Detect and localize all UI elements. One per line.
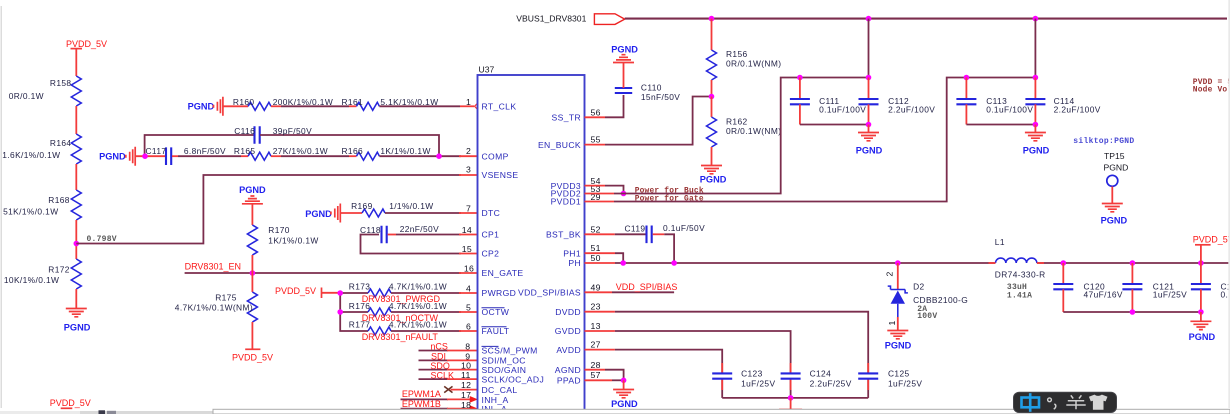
svg-text:0R/0.1W: 0R/0.1W <box>9 91 44 101</box>
svg-text:R156: R156 <box>726 49 748 59</box>
svg-text:COMP: COMP <box>482 152 509 162</box>
wire PVDD_5V to R158 <box>75 49 77 76</box>
svg-text:2: 2 <box>466 146 471 156</box>
svg-text:0R/0.1W(NM): 0R/0.1W(NM) <box>726 59 781 69</box>
pin name INL_A <box>482 404 508 414</box>
junction rail/C121 <box>1130 260 1136 266</box>
pin number 13 <box>591 321 601 331</box>
annotation PVDD node voltage (clipped) <box>1193 78 1230 95</box>
svg-text:FAULT: FAULT <box>482 326 510 336</box>
svg-text:PWRGD: PWRGD <box>482 288 517 298</box>
svg-text:16: 16 <box>464 264 474 274</box>
wire R173 to pin 4 <box>391 292 478 294</box>
svg-text:51K/1%/0.1W: 51K/1%/0.1W <box>3 207 58 217</box>
pin number 54 <box>591 176 601 186</box>
wire PGND to R160 <box>223 105 248 107</box>
svg-text:1: 1 <box>466 97 471 107</box>
wire C120-C122 bottom rail <box>1063 311 1201 313</box>
svg-text:50: 50 <box>591 253 601 263</box>
resistor R158 <box>9 76 82 106</box>
svg-text:CDBB2100-G: CDBB2100-G <box>913 295 968 305</box>
pin name PWRGD <box>482 288 517 298</box>
power port PVDD_5V (top left) <box>66 39 107 49</box>
svg-text:DC_CAL: DC_CAL <box>482 385 518 395</box>
wire VSENSE net (tap to pin 3) <box>76 175 461 244</box>
svg-text:PGND: PGND <box>239 185 266 195</box>
wire C112 drop <box>868 19 870 78</box>
wire SS_TR to C110 <box>585 95 624 117</box>
svg-text:VDD_SPI/BIAS: VDD_SPI/BIAS <box>518 288 581 298</box>
pin name SS_TR <box>552 113 581 123</box>
svg-text:27: 27 <box>591 340 601 350</box>
wire VBUS trunk <box>625 18 1227 20</box>
pin name PH1 <box>563 248 581 258</box>
svg-text:R160: R160 <box>233 97 255 107</box>
svg-text:VSENSE: VSENSE <box>482 170 519 180</box>
net label VDD_SPI/BIAS <box>585 282 678 293</box>
capacitor C117 <box>146 146 226 165</box>
IME punctuation icon <box>1048 398 1052 402</box>
pin number 55 <box>591 135 601 145</box>
svg-text:PGND: PGND <box>611 399 638 409</box>
net label EPWM1B / wire to pin 18 <box>401 399 478 412</box>
pin name GVDD <box>555 326 581 336</box>
pin number 16 <box>464 264 474 274</box>
pin name SDO/GAIN <box>482 365 527 375</box>
net label SCLK / wire to pin 11 <box>419 370 478 380</box>
resistor R170 <box>247 225 318 255</box>
wire PGND to R170 <box>251 204 253 225</box>
wire EN_BUCK to divider <box>585 97 711 145</box>
wire pull-up bus <box>340 293 368 331</box>
capacitor C114 <box>1025 78 1100 125</box>
svg-text:2.2uF/25V: 2.2uF/25V <box>810 378 852 388</box>
resistor R176 <box>349 301 447 316</box>
ground PGND (row COMP, sideways) <box>99 147 135 166</box>
wire GVDD to C124 <box>585 331 791 398</box>
svg-text:2: 2 <box>885 271 895 276</box>
capacitor C116 (feedback loop) <box>145 126 439 154</box>
wire R176 to pin 5 <box>391 311 478 313</box>
net label DRV8301_nOCTW <box>362 313 439 323</box>
junction bottom rail/C124 <box>788 395 794 401</box>
junction rail/C114 <box>1033 75 1039 81</box>
junction rail/C111 <box>797 75 803 81</box>
wire C110 to ground <box>623 63 625 88</box>
svg-text:18: 18 <box>461 400 471 410</box>
pin name RT_CLK <box>482 102 517 112</box>
svg-text:SCLK/OC_ADJ: SCLK/OC_ADJ <box>482 374 545 384</box>
svg-text:12: 12 <box>461 380 471 390</box>
pin name INH_A <box>482 395 509 405</box>
svg-text:55: 55 <box>591 135 601 145</box>
wire C123-C125 bottom rail <box>722 397 868 399</box>
wire R161 to pin 1 <box>379 105 474 107</box>
svg-text:C110: C110 <box>641 83 662 93</box>
pin name VDD_SPI/BIAS <box>518 288 581 298</box>
resistor R162 <box>707 97 782 166</box>
svg-text:R166: R166 <box>342 146 364 156</box>
junction C119/PH <box>671 260 677 266</box>
power port PVDD_5V (top right) <box>1193 235 1230 264</box>
pin name FAULT (active low) <box>482 326 510 336</box>
wire R168-R172 <box>75 220 77 259</box>
svg-text:L1: L1 <box>995 237 1005 247</box>
svg-text:Power for Gate: Power for Gate <box>635 194 704 203</box>
svg-text:R168: R168 <box>48 195 70 205</box>
svg-text:11: 11 <box>461 370 471 380</box>
svg-text:23: 23 <box>591 302 601 312</box>
svg-text:DRV8301_EN: DRV8301_EN <box>185 262 241 272</box>
svg-text:1/1%/0.1W: 1/1%/0.1W <box>389 201 433 211</box>
resistor R175 <box>175 292 258 322</box>
svg-text:CP2: CP2 <box>482 249 500 259</box>
ground PGND (row DTC, sideways) <box>305 204 340 223</box>
svg-text:4.7K/1%/0.1W: 4.7K/1%/0.1W <box>389 282 447 292</box>
capacitor C110 <box>615 83 680 103</box>
svg-text:1K/1%/0.1W: 1K/1%/0.1W <box>268 236 318 246</box>
junction trunk/C114 drop <box>1033 16 1039 22</box>
svg-text:GVDD: GVDD <box>555 326 581 336</box>
svg-text:1uF/25V: 1uF/25V <box>888 378 922 388</box>
scrollbar (right edge) <box>1228 0 1230 408</box>
svg-text:15: 15 <box>462 244 472 254</box>
svg-text:6.8nF/50V: 6.8nF/50V <box>184 146 226 156</box>
svg-text:PGND: PGND <box>99 152 126 162</box>
junction bottom rail/C114 <box>1033 122 1039 128</box>
capacitor C111 <box>790 78 866 125</box>
svg-text:C116: C116 <box>234 126 255 136</box>
svg-text:0R/0.1W(NM): 0R/0.1W(NM) <box>726 126 781 136</box>
net label SDO / wire to pin 10 <box>419 361 478 371</box>
pin 1 clock diamond <box>475 104 481 110</box>
pin name EN_GATE <box>482 268 524 278</box>
svg-text:BST_BK: BST_BK <box>546 230 581 240</box>
svg-text:1.41A: 1.41A <box>1007 292 1032 301</box>
pin number 15 <box>462 244 472 254</box>
off-page connector VBUS1_DRV8301 <box>516 14 624 25</box>
scrollbar strip (bottom) <box>0 409 1230 414</box>
ground PGND (row RT_CLK, sideways) <box>188 97 223 116</box>
wire R165-R166 <box>271 155 356 157</box>
pin stub CP2 <box>459 253 478 255</box>
svg-text:4.7K/1%/0.1W: 4.7K/1%/0.1W <box>389 301 447 311</box>
pin name PVDD2 <box>551 189 581 199</box>
node 0.798V annotation <box>87 235 117 244</box>
junction rail/C122 <box>1198 260 1204 266</box>
svg-text:D2: D2 <box>913 281 924 291</box>
wire C111/C112 bottom rail <box>800 124 869 126</box>
net label DRV8301_EN <box>185 262 241 272</box>
junction bottom rail/C121 <box>1130 309 1136 315</box>
svg-text:VDD_SPI/BIAS: VDD_SPI/BIAS <box>616 282 678 292</box>
pin name SCLK/OC_ADJ <box>482 374 545 384</box>
wire PH1 elbow <box>585 253 624 263</box>
svg-text:AVDD: AVDD <box>556 345 581 355</box>
svg-text:7: 7 <box>466 204 471 214</box>
wire R160-R161 <box>271 105 356 107</box>
wire EN_GATE row <box>185 272 478 274</box>
wire R175 to PVDD_5V <box>251 322 253 349</box>
svg-text:R172: R172 <box>48 265 70 275</box>
power port PVDD_5V (pull-up feed) <box>275 286 339 298</box>
svg-text:5: 5 <box>466 303 471 313</box>
svg-text:15nF/50V: 15nF/50V <box>641 92 680 102</box>
resistor R168 <box>3 190 81 220</box>
inductor L1 <box>995 237 1046 301</box>
svg-text:PGND: PGND <box>1104 163 1129 173</box>
svg-text:4.7K/1%/0.1W: 4.7K/1%/0.1W <box>389 320 447 330</box>
svg-text:0.1uF/100V: 0.1uF/100V <box>819 105 866 115</box>
svg-text:PVDD_5V: PVDD_5V <box>66 39 107 49</box>
capacitor C119 <box>625 223 706 243</box>
svg-text:1.6K/1%/0.1W: 1.6K/1%/0.1W <box>2 150 60 160</box>
svg-text:SCS/M_PWM: SCS/M_PWM <box>482 346 538 356</box>
wire PVDD1 Power for Gate <box>585 78 1036 202</box>
junction trunk/C112 drop <box>866 16 872 22</box>
wire R158-R164 <box>75 106 77 134</box>
pin name EN_BUCK <box>538 140 581 150</box>
junction R156/R162/EN_BUCK <box>709 94 715 100</box>
svg-text:PVDD_5V: PVDD_5V <box>232 353 273 363</box>
wire C119 to PH rail <box>653 234 674 263</box>
wire PVDD2 Power for Buck <box>585 78 869 194</box>
svg-text:DTC: DTC <box>482 208 501 218</box>
svg-text:PGND: PGND <box>188 102 215 112</box>
resistor R164 <box>2 134 81 164</box>
pin number 14 <box>462 225 472 235</box>
pin name AGND <box>555 365 581 375</box>
net label SDI / wire to pin 9 <box>419 351 478 361</box>
svg-text:1uF/25V: 1uF/25V <box>1153 290 1187 300</box>
annotation Power for Gate <box>635 194 704 203</box>
diode D2 (schottky) <box>885 263 968 330</box>
svg-text:28: 28 <box>591 360 601 370</box>
resistor R161 <box>342 97 439 110</box>
svg-text:R162: R162 <box>726 117 748 127</box>
svg-text:silktop:PGND: silktop:PGND <box>1073 137 1134 146</box>
svg-text:R175: R175 <box>215 293 237 303</box>
junction EN row / R170 <box>250 270 256 276</box>
wire R170 to EN row <box>251 255 253 273</box>
IME skin (t-shirt) icon <box>1089 395 1108 410</box>
svg-text:1uF/25V: 1uF/25V <box>741 378 775 388</box>
resistor R165 <box>234 146 328 160</box>
svg-text:PPAD: PPAD <box>557 376 581 386</box>
pin number 5 <box>466 303 471 313</box>
svg-text:2.2uF/100V: 2.2uF/100V <box>1054 105 1101 115</box>
net label EPWM1A / wire to pin 17 <box>401 389 478 403</box>
svg-text:0.1uF/50V: 0.1uF/50V <box>663 223 705 233</box>
svg-text:C118: C118 <box>360 225 381 235</box>
svg-text:EN_BUCK: EN_BUCK <box>538 140 581 150</box>
svg-text:PGND: PGND <box>64 323 91 333</box>
resistor R169 <box>351 201 433 217</box>
svg-text:2.2uF/100V: 2.2uF/100V <box>888 105 935 115</box>
capacitor C122 (clipped at edge) <box>1191 263 1230 312</box>
pin name COMP <box>482 152 509 162</box>
pin number 56 <box>591 107 601 117</box>
svg-text:0.1uF/100V: 0.1uF/100V <box>986 105 1033 115</box>
svg-text:R170: R170 <box>268 225 290 235</box>
svg-text:C123: C123 <box>741 368 763 378</box>
ground PGND (below C124, clipped) <box>779 398 802 410</box>
wire PPAD row <box>585 379 624 381</box>
junction bottom rail/C122 <box>1198 309 1204 315</box>
svg-text:EPWM1A: EPWM1A <box>402 389 441 399</box>
svg-text:Node Voltage: Node Voltage <box>1193 86 1230 95</box>
wire PH rail <box>585 262 996 264</box>
pin name CP2 <box>482 249 500 259</box>
pin name DC_CAL <box>482 385 518 395</box>
svg-text:PGND: PGND <box>856 146 883 156</box>
svg-text:PVDD_5V: PVDD_5V <box>1193 235 1230 245</box>
pin name SCS/M_PWM <box>482 346 538 356</box>
svg-text:U37: U37 <box>479 65 495 75</box>
ground PGND (below R172) <box>64 309 91 333</box>
wire PGND to R169 <box>340 212 362 214</box>
wire PH rail after L1 <box>989 262 1230 264</box>
pin number 50 <box>591 253 601 263</box>
svg-text:47uF/16V: 47uF/16V <box>1084 290 1123 300</box>
ground PGND (below R162) <box>700 166 727 185</box>
ground PGND (below C122) <box>1189 312 1216 342</box>
wire R177 to pin 6 <box>391 330 478 332</box>
no-connect X pin 12 <box>444 380 477 393</box>
svg-text:C119: C119 <box>625 223 646 233</box>
junction AGND/PPAD <box>621 378 627 384</box>
svg-text:1K/1%/0.1W: 1K/1%/0.1W <box>380 146 430 156</box>
svg-text:PGND: PGND <box>885 341 912 351</box>
pin number 4 <box>466 284 471 294</box>
svg-text:PVDD1: PVDD1 <box>551 197 581 207</box>
ground PGND (below PPAD) <box>611 380 638 409</box>
svg-text:27K/1%/0.1W: 27K/1%/0.1W <box>273 146 328 156</box>
ground PGND (below C112) <box>856 125 883 156</box>
svg-text:4: 4 <box>466 284 471 294</box>
IME toolbar <box>1014 392 1117 412</box>
svg-text:DVDD: DVDD <box>555 307 581 317</box>
pin number 3 <box>466 165 471 175</box>
pin number 57 <box>591 370 601 380</box>
svg-text:52: 52 <box>591 224 601 234</box>
pin number 1 <box>466 97 471 107</box>
wire PGND to C117 <box>135 155 165 157</box>
junction bottom rail/C112 <box>866 122 872 128</box>
pin number 52 <box>591 224 601 234</box>
svg-text:49: 49 <box>591 282 601 292</box>
capacitor C124 <box>781 368 852 388</box>
pin name CP1 <box>482 230 500 240</box>
svg-text:PGND: PGND <box>611 45 638 55</box>
svg-text:PVDD_5V: PVDD_5V <box>50 398 91 408</box>
svg-text:3: 3 <box>466 165 471 175</box>
junction C116 tap left <box>142 153 148 159</box>
svg-text:R169: R169 <box>351 201 373 211</box>
svg-text:VBUS1_DRV8301: VBUS1_DRV8301 <box>516 14 586 24</box>
capacitor C112 <box>859 78 936 125</box>
svg-text:56: 56 <box>591 107 601 117</box>
svg-text:8: 8 <box>465 341 470 351</box>
IME halfwidth icon <box>1066 395 1085 409</box>
capacitor C123 <box>712 368 775 388</box>
ground PGND (above R170) <box>239 185 266 204</box>
svg-text:1: 1 <box>887 320 897 325</box>
svg-text:R173: R173 <box>349 282 371 292</box>
pin name DTC <box>482 208 501 218</box>
svg-text:10K/1%/0.1W: 10K/1%/0.1W <box>4 275 59 285</box>
pin number 6 <box>466 322 471 332</box>
svg-text:13: 13 <box>591 321 601 331</box>
pin name AVDD <box>556 345 581 355</box>
resistor R173 <box>349 282 447 298</box>
pin number 7 <box>466 204 471 214</box>
svg-text:4.7K/1%/0.1W(NM): 4.7K/1%/0.1W(NM) <box>175 303 253 313</box>
svg-text:PH1: PH1 <box>563 248 581 258</box>
pin name PVDD3 <box>551 181 581 191</box>
capacitor C120 <box>1053 263 1123 312</box>
svg-text:14: 14 <box>462 225 472 235</box>
capacitor C113 <box>956 78 1033 125</box>
wire PVDD3 elbow <box>585 186 624 194</box>
net label nCS / wire to pin 8 <box>419 341 478 351</box>
pin number 27 <box>591 340 601 350</box>
annotation Power for Buck <box>635 186 704 195</box>
ground PGND (below D2) <box>885 331 912 351</box>
svg-text:R161: R161 <box>342 97 364 107</box>
capacitor C121 <box>1122 263 1187 312</box>
svg-text:51: 51 <box>591 243 601 253</box>
ground PGND (above C110) <box>611 45 638 63</box>
net label DRV8301_PWRGD <box>362 294 441 304</box>
wire C117-R165 <box>172 155 248 157</box>
wire R164-R168 <box>75 164 77 190</box>
pin number 53 <box>591 184 601 194</box>
resistor R166 <box>342 146 431 160</box>
svg-text:39pF/50V: 39pF/50V <box>273 126 312 136</box>
pin name PVDD1 <box>551 197 581 207</box>
IME pinyin icon <box>1022 398 1040 408</box>
svg-text:C117: C117 <box>146 146 167 156</box>
svg-text:RT_CLK: RT_CLK <box>482 102 517 112</box>
junction PH1/PH <box>620 260 626 266</box>
wire AGND elbow <box>585 370 624 381</box>
svg-text:C124: C124 <box>810 368 832 378</box>
test point TP15 <box>1104 151 1129 203</box>
net label DRV8301_nFAULT <box>362 332 439 342</box>
svg-text:PH: PH <box>568 258 581 268</box>
pin number 23 <box>591 302 601 312</box>
svg-text:17: 17 <box>461 390 471 400</box>
svg-text:SDO/GAIN: SDO/GAIN <box>482 365 527 375</box>
junction pull-up row5 <box>337 309 343 315</box>
resistor R160 <box>233 97 333 110</box>
wire AVDD to C123 <box>585 350 723 398</box>
capacitor C125 <box>858 368 922 388</box>
wire BST_BK to C119 <box>585 233 646 235</box>
op-amp U37 (DRV8301 IC body) <box>478 65 585 414</box>
svg-text:EN_GATE: EN_GATE <box>482 268 524 278</box>
svg-text:EPWM1B: EPWM1B <box>402 399 441 409</box>
svg-text:R164: R164 <box>50 138 72 148</box>
pin name VSENSE <box>482 170 519 180</box>
ground PGND (below C114) <box>1023 125 1050 156</box>
svg-text:DRV8301_nFAULT: DRV8301_nFAULT <box>362 332 439 342</box>
pin number 28 <box>591 360 601 370</box>
svg-text:C125: C125 <box>888 368 910 378</box>
junction rail/C112 <box>866 75 872 81</box>
pin number 49 <box>591 282 601 292</box>
